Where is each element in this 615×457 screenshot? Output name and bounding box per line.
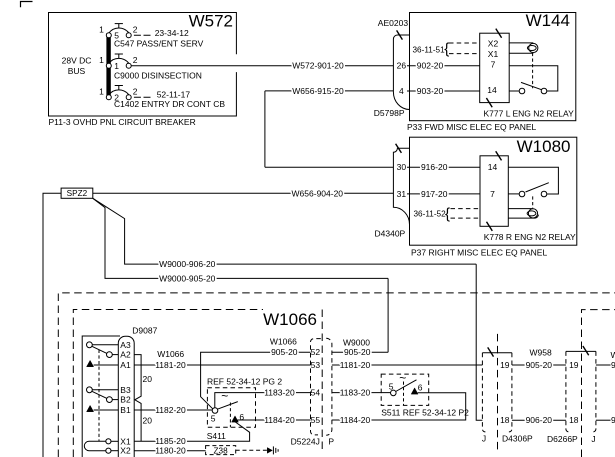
svg-text:A2: A2 <box>120 350 131 360</box>
svg-text:54: 54 <box>311 388 321 398</box>
svg-text:C9000 DISINSECTION: C9000 DISINSECTION <box>114 70 202 80</box>
svg-text:{: { <box>444 40 449 57</box>
svg-text:36-11-52: 36-11-52 <box>414 210 447 219</box>
svg-text:B2: B2 <box>120 395 131 405</box>
svg-text:Z38: Z38 <box>214 446 229 455</box>
svg-text:REF 52-34-12 PG 2: REF 52-34-12 PG 2 <box>207 377 282 387</box>
svg-text:30: 30 <box>397 162 407 172</box>
svg-text:D5798P: D5798P <box>374 108 405 118</box>
svg-text:2: 2 <box>133 25 138 35</box>
svg-text:36-11-51: 36-11-51 <box>413 45 446 54</box>
svg-text:26: 26 <box>397 61 407 71</box>
svg-text:~: ~ <box>221 389 228 403</box>
svg-text:W9000-906-20: W9000-906-20 <box>159 259 216 269</box>
svg-text:55: 55 <box>311 415 321 425</box>
svg-text:2: 2 <box>133 87 138 97</box>
svg-text:B1: B1 <box>120 405 131 415</box>
svg-text:903-20: 903-20 <box>417 86 444 96</box>
svg-text:W1066: W1066 <box>263 310 317 329</box>
svg-text:W656-915-20: W656-915-20 <box>292 86 344 96</box>
svg-text:6: 6 <box>418 382 423 392</box>
svg-text:1183-20: 1183-20 <box>340 387 371 397</box>
svg-text:P37 RIGHT MISC ELEC EQ PANEL: P37 RIGHT MISC ELEC EQ PANEL <box>411 248 547 258</box>
svg-text:31: 31 <box>397 189 407 199</box>
svg-text:7: 7 <box>491 60 496 70</box>
svg-text:23-34-12: 23-34-12 <box>155 28 189 38</box>
svg-text:J: J <box>591 434 595 444</box>
svg-text:S411: S411 <box>207 431 226 441</box>
svg-text:905-20: 905-20 <box>271 347 298 357</box>
svg-text:7: 7 <box>490 189 495 199</box>
svg-text:W1080: W1080 <box>517 137 571 156</box>
svg-text:905-20: 905-20 <box>344 347 371 357</box>
svg-text:A3: A3 <box>120 340 131 350</box>
svg-text:20: 20 <box>143 415 153 425</box>
svg-text:W1066: W1066 <box>157 349 184 359</box>
svg-text:W144: W144 <box>526 11 570 30</box>
svg-text:D6266P: D6266P <box>547 434 578 444</box>
svg-text:X2: X2 <box>120 446 131 456</box>
svg-text:{: { <box>445 206 450 223</box>
svg-text:916-20: 916-20 <box>421 162 448 172</box>
svg-text:1184-20: 1184-20 <box>264 415 295 425</box>
svg-text:19: 19 <box>569 360 579 370</box>
svg-text:5: 5 <box>389 382 394 392</box>
svg-text:905-20: 905-20 <box>611 360 615 370</box>
svg-text:P33 FWD MISC ELEC EQ PANEL: P33 FWD MISC ELEC EQ PANEL <box>407 122 537 132</box>
svg-text:906-20: 906-20 <box>526 415 553 425</box>
svg-text:W9000-905-20: W9000-905-20 <box>159 273 216 283</box>
svg-text:B3: B3 <box>120 385 131 395</box>
svg-text:X1: X1 <box>488 49 499 59</box>
svg-text:AE0203: AE0203 <box>378 18 409 28</box>
svg-text:1181-20: 1181-20 <box>155 360 186 370</box>
svg-text:2: 2 <box>133 55 138 65</box>
svg-text:C547 PASS/ENT SERV: C547 PASS/ENT SERV <box>114 38 204 48</box>
svg-text:W9000: W9000 <box>343 337 370 347</box>
svg-text:D5224J: D5224J <box>291 436 320 446</box>
svg-text:18: 18 <box>500 415 510 425</box>
svg-text:K777 L ENG N2 RELAY: K777 L ENG N2 RELAY <box>484 108 575 118</box>
svg-text:S511 REF 52-34-12 P2: S511 REF 52-34-12 P2 <box>381 407 469 417</box>
svg-text:X2: X2 <box>488 38 499 48</box>
svg-text:P: P <box>328 436 334 446</box>
svg-text:1181-20: 1181-20 <box>340 360 371 370</box>
svg-text:1184-20: 1184-20 <box>340 415 371 425</box>
svg-text:D4306P: D4306P <box>502 434 533 444</box>
svg-text:W656-904-20: W656-904-20 <box>292 188 344 198</box>
svg-text:4: 4 <box>399 86 404 96</box>
svg-text:1: 1 <box>99 55 104 65</box>
svg-text:14: 14 <box>488 162 498 172</box>
svg-text:D9087: D9087 <box>132 326 157 336</box>
svg-text:20: 20 <box>143 374 153 384</box>
svg-text:P11-3 OVHD PNL CIRCUIT BREAKER: P11-3 OVHD PNL CIRCUIT BREAKER <box>49 117 196 127</box>
svg-text:~: ~ <box>399 371 406 385</box>
svg-text:W572-901-20: W572-901-20 <box>292 61 344 71</box>
svg-text:5: 5 <box>211 414 216 424</box>
svg-text:D4340P: D4340P <box>375 228 406 238</box>
svg-text:53: 53 <box>311 360 321 370</box>
svg-text:BUS: BUS <box>68 66 86 76</box>
svg-text:A1: A1 <box>120 360 131 370</box>
svg-text:18: 18 <box>569 415 579 425</box>
svg-text:SPZ2: SPZ2 <box>67 189 88 198</box>
svg-text:19: 19 <box>500 360 510 370</box>
svg-text:1180-20: 1180-20 <box>155 446 186 456</box>
svg-text:902-20: 902-20 <box>417 61 444 71</box>
svg-text:906-20: 906-20 <box>611 415 615 425</box>
svg-text:W958: W958 <box>611 350 615 360</box>
svg-text:J: J <box>482 434 486 444</box>
svg-text:905-20: 905-20 <box>526 360 553 370</box>
svg-text:917-20: 917-20 <box>421 189 448 199</box>
svg-text:1183-20: 1183-20 <box>264 387 295 397</box>
svg-text:C1402 ENTRY DR CONT CB: C1402 ENTRY DR CONT CB <box>114 99 225 109</box>
svg-text:28V DC: 28V DC <box>62 56 92 66</box>
svg-text:1: 1 <box>99 25 104 35</box>
svg-text:14: 14 <box>487 85 497 95</box>
svg-text:W958: W958 <box>530 347 552 357</box>
svg-text:K778 R ENG N2 RELAY: K778 R ENG N2 RELAY <box>484 232 576 242</box>
svg-text:1: 1 <box>99 87 104 97</box>
svg-text:52: 52 <box>311 347 321 357</box>
svg-text:W1066: W1066 <box>270 337 297 347</box>
svg-text:6: 6 <box>239 412 244 422</box>
svg-text:W572: W572 <box>189 12 233 31</box>
svg-text:1182-20: 1182-20 <box>155 405 186 415</box>
